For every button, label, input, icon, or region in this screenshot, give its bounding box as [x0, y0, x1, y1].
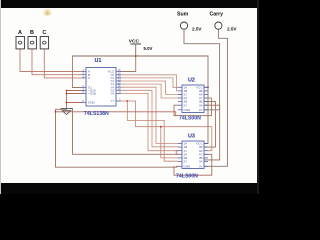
- wire snake branch down to U3 2B: [161, 127, 178, 158]
- U2 left pin stubs: [178, 87, 182, 110]
- wire VCC rail drop to U2/U3 VCC pins: [204, 56, 208, 144]
- wire ground right branch to U3 pin 2A: [73, 109, 179, 155]
- svg-text:3A: 3A: [199, 160, 203, 164]
- wire U1 ~G2B to ground: [67, 93, 83, 95]
- voltmeter Sum: [177, 12, 202, 32]
- svg-text:2Y: 2Y: [184, 160, 188, 164]
- junction dot U1 Y7 branch: [126, 100, 128, 102]
- U3 right pin stubs: [204, 144, 208, 167]
- switch C: [40, 30, 48, 49]
- svg-text:Carry: Carry: [210, 12, 224, 18]
- wire B to U1 pin B: [32, 49, 82, 75]
- junction dot U2 VCC: [207, 86, 209, 88]
- U3 left pin stubs: [178, 144, 182, 167]
- wire U2 3A to U3 3B link: [204, 105, 220, 160]
- U1 pin numbers: [83, 69, 122, 103]
- wire U1 Y2 to U2 1Y: [121, 81, 178, 95]
- U1 right pin stubs: [116, 72, 121, 102]
- svg-text:5.0V: 5.0V: [144, 46, 153, 51]
- U3 pin names: [184, 142, 204, 169]
- wire U2 2Y wrap-around to U2 4Y (under label): [174, 98, 212, 116]
- op IC U1 74LS138N decoder: [82, 58, 121, 117]
- wire U1 Y7 branch to U3 2Y: [127, 101, 178, 161]
- wire U3 4Y wrap-around under label: [174, 154, 212, 175]
- wire U1 Y1 to U2 1A: [121, 78, 178, 87]
- wire U3 1Y to U3 2A hook: [176, 151, 178, 155]
- top letterbox bar: [0, 0, 259, 8]
- junction dot ground net at ~G2B: [66, 93, 68, 95]
- svg-text:Sum: Sum: [177, 12, 189, 18]
- U2 pin names: [184, 85, 204, 112]
- ground symbol: [61, 106, 73, 115]
- U1 left pin stubs: [82, 72, 86, 103]
- wire VCC rail to U1 G1: [73, 56, 83, 88]
- svg-text:3Y: 3Y: [199, 164, 203, 168]
- junction dot snake branch: [160, 126, 162, 128]
- mouse highlight blob: [0, 0, 1, 1]
- wire U1 GND pin to ground: [67, 102, 83, 104]
- svg-text:U1: U1: [95, 58, 102, 64]
- wire U1 Y0 to U2 1B: [121, 75, 178, 91]
- svg-text:U2: U2: [188, 78, 195, 84]
- svg-text:B: B: [30, 30, 34, 36]
- junction dot ground net at ~G2A: [66, 90, 68, 92]
- svg-text:74LS00N: 74LS00N: [179, 116, 201, 122]
- svg-text:GND: GND: [88, 101, 96, 105]
- wire U1 Y6 to U3 1Y: [121, 93, 178, 150]
- wire U1 ~G2A to ground: [67, 90, 83, 92]
- U1 pin names: [88, 70, 115, 105]
- switch A: [16, 30, 24, 49]
- svg-text:74LS138N: 74LS138N: [84, 111, 109, 117]
- svg-text:3Y: 3Y: [199, 108, 203, 112]
- junction dot strike at ground rail: [55, 111, 57, 113]
- IC U3 74LS00N: [176, 134, 208, 180]
- voltmeter Carry: [210, 12, 238, 32]
- wire VCC rail drop to U1 VCC pin16: [121, 56, 136, 72]
- svg-text:74LS00N: 74LS00N: [176, 174, 198, 180]
- left edge faint line: [0, 0, 2, 194]
- wire U1 Y5 to U3 1B: [121, 90, 178, 147]
- switch B: [28, 30, 36, 49]
- bottom letterbox bar: [0, 183, 259, 195]
- svg-text:3A: 3A: [199, 103, 203, 107]
- wire Carry meter to U3 3Y: [204, 29, 227, 166]
- svg-text:U3: U3: [188, 134, 195, 140]
- VCC power symbol: [129, 39, 153, 56]
- wire U1 Y7 snake under U2 to U3 4A: [121, 101, 212, 151]
- svg-text:Y6: Y6: [110, 92, 114, 96]
- wire U1 Y3 to U2 2A: [121, 84, 178, 98]
- svg-text:C: C: [42, 30, 46, 36]
- wire ground to bottom rail to U3 GND: [56, 109, 179, 167]
- wire U2 3B to U3 4B link: [204, 102, 216, 148]
- junction dot ground net at GND pin: [66, 102, 68, 104]
- svg-text:2Y: 2Y: [184, 103, 188, 107]
- wire C to U1 pin C: [44, 49, 82, 78]
- wire U1 Y4 to U3 1A: [121, 87, 178, 143]
- svg-text:~G2B: ~G2B: [88, 92, 96, 96]
- svg-text:2.5V: 2.5V: [192, 26, 202, 31]
- svg-text:GND: GND: [184, 164, 192, 168]
- svg-text:GND: GND: [184, 108, 192, 112]
- U2 right pin stubs: [204, 87, 208, 110]
- wire strike through U1 label from ground rail: [56, 112, 176, 116]
- ground net vertical: [66, 91, 68, 107]
- right edge dark strip: [257, 0, 259, 194]
- wire Sum meter to U2 3Y: [184, 29, 220, 110]
- junction dot VCC rail/symbol: [135, 55, 137, 57]
- VCC rail wire: [73, 55, 209, 57]
- svg-text:2.5V: 2.5V: [227, 26, 237, 31]
- svg-text:Y7: Y7: [110, 99, 114, 103]
- wire A vertical+horizontal to U1 pin A: [20, 49, 82, 72]
- svg-text:A: A: [18, 30, 22, 36]
- IC U2 74LS00N: [178, 78, 208, 122]
